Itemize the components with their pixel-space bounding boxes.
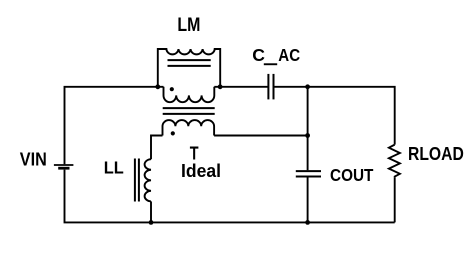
resistor RLOAD [389,145,400,178]
junction: LM left node [155,84,160,89]
junction: secondary output node [305,133,310,138]
junction: COUT ground node [305,220,310,225]
wire: secondary left lead [151,136,163,160]
inductor LM [158,49,220,87]
junction: LL ground node [149,220,154,225]
svg-text:T: T [190,142,199,163]
phase dot: T primary [170,87,174,91]
transformer T primary winding [164,87,215,102]
svg-text:AC: AC [278,45,300,65]
wire: RLOAD bottom lead (right rail lower) [394,177,396,222]
battery VIN [54,165,74,168]
wire: COUT top lead [307,87,309,170]
label C_AC [252,45,300,65]
svg-text:RLOAD: RLOAD [408,144,464,164]
capacitor COUT [296,171,321,176]
phase dot: T secondary [171,131,175,135]
svg-text:Ideal: Ideal [181,161,221,181]
wire: VIN top lead and top rail left segment [65,87,164,164]
wire: top rail middle segment [214,86,268,88]
svg-text:LL: LL [104,158,124,178]
wire: secondary to output node [214,135,308,137]
svg-text:C: C [252,45,265,65]
junction: LM right node [218,84,223,89]
wire: COUT bottom lead [307,178,309,223]
junction: output top node [305,84,310,89]
svg-text:COUT: COUT [330,165,374,185]
wire: VIN bottom lead and bottom rail [65,170,395,223]
core of LM [168,60,211,66]
svg-text:VIN: VIN [20,150,47,170]
inductor LL [145,159,151,201]
wire: LL bottom lead [150,201,152,222]
wire: top rail right segment and RLOAD top lead [274,87,395,145]
core of LL [135,159,139,202]
svg-text:LM: LM [177,14,200,36]
core of transformer T [163,108,215,114]
transformer T secondary winding [163,120,215,135]
capacitor C_AC [268,74,273,100]
